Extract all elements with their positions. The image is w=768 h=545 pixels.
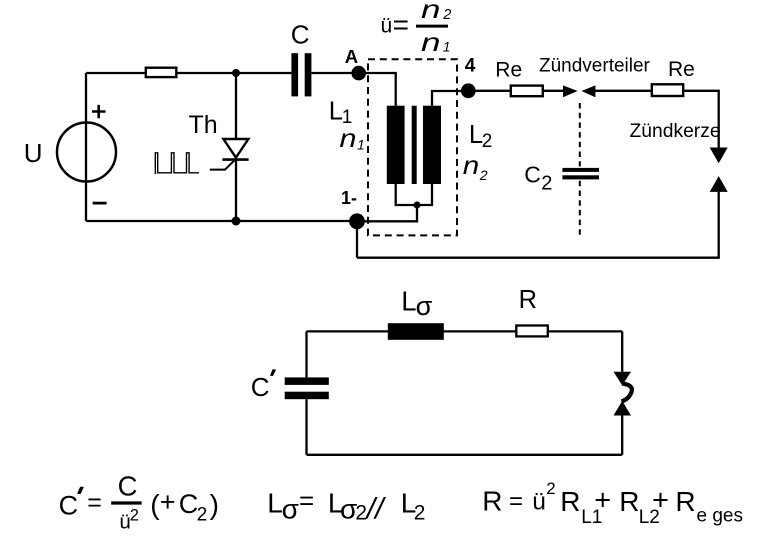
svg-text:=: = (393, 9, 409, 40)
svg-text:R: R (519, 286, 537, 314)
resistor Re (distributor side) (511, 86, 543, 97)
svg-text:R: R (482, 486, 502, 517)
svg-text:1: 1 (357, 137, 365, 153)
svg-text:R: R (560, 486, 580, 517)
node A (351, 66, 366, 81)
svg-text:(: ( (150, 489, 160, 520)
label - (source polarity) (93, 202, 107, 205)
wire: top left (source to capacitor C) (86, 72, 291, 74)
capacitor C2 (plates) (562, 168, 599, 172)
wire: left side of source loop (85, 73, 87, 221)
transformer boundary (dashed box) (368, 59, 457, 235)
thyristor Th: triangle (223, 139, 248, 158)
dashed line: distributor rotor connection (579, 103, 581, 239)
svg-text:2: 2 (355, 502, 367, 525)
node 1- (349, 213, 365, 229)
svg-text:): ) (210, 489, 219, 520)
spark gap Zündverteiler (distributor) (563, 85, 578, 97)
svg-text:2: 2 (197, 504, 208, 525)
resistor R (516, 326, 548, 337)
transformer core (412, 106, 417, 184)
svg-text:2: 2 (442, 7, 451, 23)
svg-text:ü: ü (532, 488, 546, 515)
wire: equivalent circuit right side (621, 331, 623, 454)
svg-text:C: C (251, 372, 270, 402)
capacitor C (plates) (291, 53, 298, 96)
label + (source polarity) (92, 105, 106, 118)
wire: Re2 to spark plug (684, 91, 718, 148)
svg-text:2: 2 (541, 173, 552, 195)
wire: secondary bottom lead (417, 184, 432, 205)
svg-text:Re: Re (495, 58, 522, 81)
svg-text:Zündverteiler: Zündverteiler (539, 56, 651, 77)
svg-text:+: + (652, 484, 669, 516)
svg-text:C: C (179, 489, 199, 519)
svg-text:+: + (594, 484, 611, 516)
svg-text:=: = (509, 488, 523, 515)
svg-text:2: 2 (482, 131, 493, 152)
svg-text:Th: Th (189, 111, 218, 139)
trigger pulse train (155, 153, 199, 174)
wire: bottom of source loop (86, 220, 357, 222)
inductor L sigma (leakage inductance) (388, 323, 444, 340)
svg-text:Zündkerze: Zündkerze (630, 121, 721, 142)
svg-text:2: 2 (546, 479, 555, 498)
svg-text:=: = (87, 489, 102, 517)
wire: secondary winding to node 4 (432, 91, 468, 106)
voltage source U (57, 123, 116, 182)
thyristor Th: cathode bar (222, 158, 248, 161)
svg-text:n: n (421, 0, 441, 24)
svg-text:n: n (463, 150, 480, 180)
transformer primary winding L1 (387, 106, 405, 184)
svg-text:e ges: e ges (697, 505, 743, 526)
node 4 (461, 83, 476, 98)
wire: capacitor C to node A (311, 72, 358, 74)
wire: primary bottom lead (396, 184, 417, 205)
svg-text:L: L (401, 285, 416, 316)
wire: equivalent circuit bottom (307, 454, 623, 456)
svg-text:A: A (345, 46, 358, 67)
svg-text:1-: 1- (341, 188, 357, 208)
wire: node 1- down to bottom return (356, 221, 358, 257)
transformer secondary winding L2 (423, 106, 441, 184)
resistor (series input) (146, 68, 177, 77)
svg-text:4: 4 (465, 56, 476, 77)
svg-text:R: R (675, 486, 695, 517)
thyristor gate lead (210, 159, 236, 170)
svg-text://: // (365, 493, 386, 526)
wire: equivalent circuit left side (305, 331, 307, 454)
svg-text:R: R (619, 486, 639, 517)
svg-text:U: U (24, 138, 43, 168)
spark gap (equivalent circuit) (614, 372, 632, 386)
svg-text:L: L (329, 98, 343, 126)
svg-text:2: 2 (414, 502, 426, 525)
svg-text:ü: ü (381, 15, 393, 38)
spark plug Zündkerze (gap symbol) (710, 148, 728, 164)
svg-text:2: 2 (479, 167, 488, 183)
junction: thyristor bottom (232, 217, 241, 226)
svg-text:n: n (421, 27, 441, 57)
wire: winding common to node 1- (357, 205, 417, 221)
svg-text:C: C (524, 161, 541, 187)
svg-text:C: C (59, 491, 79, 521)
capacitor C' (plates) (285, 377, 329, 385)
svg-text:=: = (299, 485, 314, 515)
svg-text:C: C (291, 20, 310, 50)
svg-text:2: 2 (130, 507, 139, 525)
svg-text:σ: σ (282, 494, 299, 525)
wire: equivalent circuit top (307, 330, 623, 332)
svg-text:+: + (160, 487, 176, 517)
svg-text:1: 1 (443, 39, 451, 55)
wire: spark plug to bottom return (357, 192, 719, 258)
wire: spark gap to resistor Re2 (595, 90, 650, 92)
svg-text:C: C (118, 471, 138, 502)
svg-text:L: L (267, 488, 283, 519)
wire: thyristor branch vertical (235, 73, 237, 221)
resistor Re (spark plug side) (652, 84, 683, 96)
wire: node 4 to spark gap (through resistor Re) (468, 90, 563, 92)
svg-text:σ: σ (416, 291, 433, 321)
svg-text:Re: Re (668, 58, 695, 81)
junction: thyristor top (232, 69, 240, 77)
svg-text:n: n (340, 123, 357, 153)
wire: node A to primary winding (359, 73, 396, 106)
junction: winding common point (414, 202, 421, 209)
